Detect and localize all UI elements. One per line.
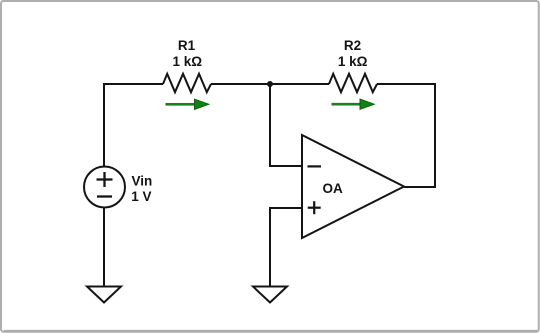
op-amp OA (302, 135, 404, 238)
op-amp inverting pin mark (308, 165, 322, 167)
current arrow for R1 (166, 99, 209, 109)
vsrc minus mark (97, 195, 112, 197)
vsrc plus mark (97, 172, 113, 187)
wire: R2 right to feedback corner and down (377, 84, 435, 187)
svg-text:R1: R1 (178, 38, 196, 53)
resistor R2 (329, 74, 377, 92)
resistor R1 (163, 74, 211, 92)
svg-text:1 kΩ: 1 kΩ (338, 54, 368, 69)
svg-text:1 kΩ: 1 kΩ (173, 54, 203, 69)
node A (junction dot) (267, 81, 273, 87)
svg-text:1 V: 1 V (131, 189, 151, 204)
wire: R1 right to R2 left (through node) (211, 83, 329, 85)
svg-text:Vin: Vin (132, 173, 153, 188)
svg-text:OA: OA (323, 181, 344, 196)
svg-text:R2: R2 (344, 38, 361, 53)
wire: non-inverting input to ground (270, 208, 302, 286)
ground (left, under Vin) (87, 287, 121, 303)
wire: node down to inverting input (270, 84, 302, 166)
ground (right, under op-amp + input) (253, 287, 287, 303)
current arrow for R2 (332, 99, 375, 109)
voltage source Vin (84, 167, 125, 208)
wire: Vin bottom to ground (103, 207, 105, 286)
wire: Vin top to R1 left (104, 84, 163, 167)
wire: op-amp output to feedback (404, 186, 436, 188)
op-amp non-inverting pin mark (308, 201, 321, 214)
